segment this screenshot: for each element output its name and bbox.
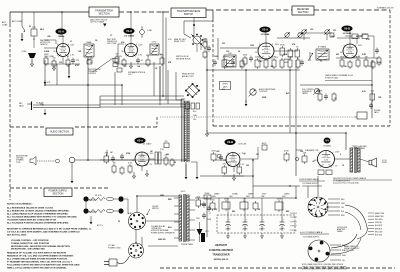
svg-text:IF TRANSMITTER HAS DRIVEN, THI: IF TRANSMITTER HAS DRIVEN, THIS COIL WIT… [7, 261, 73, 264]
svg-text:+ 5 V: + 5 V [231, 157, 234, 159]
svg-text:2: 2 [57, 55, 58, 57]
svg-text:SET AS FOLLOWS:: SET AS FOLLOWS: [7, 234, 27, 237]
svg-text:2: 2 [136, 165, 137, 167]
svg-text:6: 6 [340, 154, 341, 156]
svg-text:1/2 6EA8: 1/2 6EA8 [261, 33, 271, 36]
svg-text:470K: 470K [126, 152, 131, 155]
svg-text:READINGS OF 75 A AND 17-D WITH: READINGS OF 75 A AND 17-D WITH SWITCH ON… [7, 252, 67, 255]
svg-text:YEL: YEL [342, 260, 345, 262]
svg-text:POWER CORD: POWER CORD [108, 247, 121, 249]
svg-text:20MFD: 20MFD [284, 194, 290, 196]
svg-text:7: 7 [68, 55, 69, 57]
svg-text:C19: C19 [226, 51, 229, 53]
svg-text:LVL 2: LVL 2 [128, 74, 133, 76]
svg-text:YEL: YEL [193, 119, 196, 121]
svg-text:1 2 0: 1 2 0 [129, 50, 133, 52]
svg-text:C21: C21 [222, 43, 225, 45]
svg-text:NOTE: WHEN USED ON DC, USE WIR: NOTE: WHEN USED ON DC, USE WIRE PER LIST… [302, 264, 344, 266]
svg-text:CONTROL: CONTROL [88, 73, 96, 75]
svg-text:NOTES ON SCHEMATIC:: NOTES ON SCHEMATIC: [7, 203, 33, 206]
svg-text:.005: .005 [270, 66, 273, 68]
svg-text:C7: C7 [110, 35, 112, 37]
svg-text:1 2 0: 1 2 0 [140, 159, 144, 161]
svg-text:FINAL: FINAL [86, 41, 91, 44]
svg-text:AND AC CONT.: AND AC CONT. [182, 75, 194, 78]
svg-text:SECTION: SECTION [98, 12, 109, 15]
svg-text:100K: 100K [243, 54, 248, 56]
svg-text:VOLUME CONTROL - OFF POS: VOLUME CONTROL - OFF POSITION [11, 240, 49, 242]
svg-text:+ 5 V: + 5 V [129, 47, 132, 49]
svg-text:C31: C31 [333, 30, 336, 32]
svg-text:+ 5 V: + 5 V [264, 48, 267, 50]
svg-text:TONING CAPACITOR - MID POS: TONING CAPACITOR - MID POSITION [11, 242, 50, 245]
svg-text:150MA: 150MA [232, 193, 238, 196]
svg-text:4: 4 [239, 153, 240, 155]
svg-text:5-730: 5-730 [152, 42, 157, 44]
svg-text:4.7K: 4.7K [128, 162, 133, 164]
svg-text:SCHEMATIC 595-299: SCHEMATIC 595-299 [377, 7, 394, 10]
svg-text:47: 47 [209, 213, 211, 215]
svg-text:POSITION GND: POSITION GND [325, 77, 339, 79]
svg-text:12: 12 [342, 165, 344, 167]
svg-text:1 2 0: 1 2 0 [61, 50, 65, 52]
svg-text:4: 4 [332, 152, 333, 154]
svg-text:IF TRANS: IF TRANS [318, 46, 327, 49]
svg-text:.005: .005 [216, 151, 219, 153]
svg-text:ALL CAPACITANCE IN UF UNLESS O: ALL CAPACITANCE IN UF UNLESS OTHERWISE S… [7, 213, 69, 216]
svg-text:1/2 6AQ5: 1/2 6AQ5 [323, 145, 331, 148]
svg-text:9: 9 [125, 44, 126, 46]
svg-text:TO PIN 2: TO PIN 2 [290, 221, 297, 223]
svg-text:2.5MH: 2.5MH [44, 51, 50, 53]
svg-text:470: 470 [226, 161, 229, 164]
svg-text:20MFD: 20MFD [248, 194, 254, 196]
svg-text:11-PIN POWER CABLE: 11-PIN POWER CABLE [299, 178, 319, 181]
svg-text:1/2 6CX8: 1/2 6CX8 [238, 144, 246, 146]
svg-text:TO SPKR TERM: TO SPKR TERM [352, 148, 365, 150]
svg-text:1000: 1000 [250, 45, 254, 47]
svg-text:10W: 10W [277, 198, 281, 200]
svg-text:LENGTH: LENGTH [40, 44, 48, 46]
svg-text:T1: T1 [320, 61, 322, 63]
svg-text:100K: 100K [283, 54, 288, 56]
svg-text:.05: .05 [334, 98, 336, 100]
svg-text:L3: L3 [160, 54, 162, 56]
svg-text:ALL VOLTAGES POSITIVE UNLESS O: ALL VOLTAGES POSITIVE UNLESS OTHERWISE S… [7, 222, 69, 225]
svg-text:5U4GB: 5U4GB [200, 203, 207, 206]
svg-text:12AB5: 12AB5 [58, 35, 65, 38]
svg-text:SPKR: SPKR [223, 84, 229, 86]
svg-text:25W: 25W [261, 196, 265, 198]
svg-text:RELAY CONT.: RELAY CONT. [174, 40, 185, 43]
svg-text:FOLLOWING IS WITH THE SWITCH I: FOLLOWING IS WITH THE SWITCH IN BATTERY … [7, 263, 80, 266]
svg-text:GRID: GRID [284, 62, 289, 64]
svg-text:STANDARD COIL: STANDARD COIL [305, 149, 319, 152]
svg-text:#47 PILOT LAMP: #47 PILOT LAMP [90, 21, 105, 24]
svg-text:220: 220 [166, 154, 169, 156]
svg-text:20MFD: 20MFD [242, 229, 248, 231]
svg-text:1/2 12AB5: 1/2 12AB5 [124, 34, 135, 37]
svg-text:2: 2 [228, 165, 229, 167]
svg-text:CONTROL: CONTROL [259, 91, 268, 93]
svg-text:10 METRE AMATEUR: 10 METRE AMATEUR [209, 249, 233, 252]
svg-text:1/2 6EA8: 1/2 6EA8 [343, 32, 353, 35]
svg-text:120: 120 [246, 165, 249, 167]
svg-text:RECEIVING HUM - ADJUSTE: RECEIVING HUM - ADJUSTED FOR NORMAL RECE… [11, 245, 70, 248]
svg-text:GRN-YEL: GRN-YEL [375, 222, 382, 224]
svg-text:470K: 470K [316, 90, 321, 93]
svg-text:V1-A: V1-A [58, 30, 64, 34]
svg-text:OSC TUNE: OSC TUNE [107, 43, 117, 45]
svg-text:C30: C30 [310, 29, 313, 31]
svg-text:7: 7 [355, 57, 356, 59]
svg-text:20MFD: 20MFD [279, 229, 285, 231]
svg-text:TO POWER SUPPLY: TO POWER SUPPLY [302, 183, 319, 185]
svg-text:9: 9 [344, 45, 345, 47]
svg-text:9: 9 [319, 152, 320, 154]
svg-text:POWER SUPPLY OPERATION: POWER SUPPLY OPERATION [151, 231, 175, 234]
svg-text:20MFD: 20MFD [225, 229, 231, 231]
svg-text:470K: 470K [284, 150, 289, 152]
svg-text:WIRE L-4 FOLLOWING IS WITH THE: WIRE L-4 FOLLOWING IS WITH THE SWITCH IN… [7, 266, 67, 269]
svg-text:2: 2 [125, 55, 126, 57]
svg-text:ALL VOLTAGES MEASURED WITH RES: ALL VOLTAGES MEASURED WITH RESPECT TO CH… [7, 216, 78, 219]
svg-text:COAX: COAX [2, 23, 8, 26]
svg-text:GRN-YEL: GRN-YEL [158, 239, 167, 241]
svg-text:40MFD: 40MFD [259, 229, 265, 231]
svg-text:R42: R42 [286, 210, 289, 213]
svg-text:250K: 250K [262, 97, 267, 99]
svg-text:7: 7 [239, 165, 240, 167]
svg-text:R40: R40 [232, 210, 235, 213]
svg-text:4: 4 [147, 153, 148, 155]
svg-text:3.2: 3.2 [222, 89, 224, 91]
svg-text:TO POWER SUPPLY: TO POWER SUPPLY [303, 237, 320, 239]
svg-text:AUDIO SECTION: AUDIO SECTION [50, 130, 69, 133]
svg-text:9: 9 [136, 153, 137, 155]
svg-text:54-79: 54-79 [181, 191, 186, 193]
svg-text:9: 9 [57, 44, 58, 46]
svg-text:4: 4 [355, 45, 356, 47]
svg-text:1 2 0: 1 2 0 [324, 160, 328, 162]
svg-text:JACK: JACK [19, 105, 25, 108]
svg-text:+ 5 V: + 5 V [324, 156, 327, 158]
svg-text:ALL RESISTANCE VALUES IN OHMS.: ALL RESISTANCE VALUES IN OHMS. K=1000. [7, 207, 54, 210]
svg-text:C40: C40 [214, 208, 217, 211]
svg-text:SWITCH: SWITCH [152, 208, 159, 210]
svg-text:C4: C4 [95, 39, 97, 42]
svg-text:.005: .005 [146, 55, 149, 57]
svg-text:HEATHKIT: HEATHKIT [215, 244, 227, 247]
svg-text:BLU-WHT: BLU-WHT [375, 225, 382, 227]
svg-text:7: 7 [272, 57, 273, 59]
svg-text:4+DC POWER CABLE: 4+DC POWER CABLE [300, 231, 323, 234]
svg-text:TO PIN 4: TO PIN 4 [290, 213, 297, 215]
svg-text:1W: 1W [256, 154, 259, 156]
svg-text:100: 100 [59, 62, 62, 64]
svg-text:X-TAL: X-TAL [22, 50, 27, 53]
svg-text:270K: 270K [280, 44, 285, 46]
svg-text:ALL RESISTORS 1/2 WATT UNLESS: ALL RESISTORS 1/2 WATT UNLESS OTHERWISE … [7, 210, 70, 213]
svg-text:.02: .02 [312, 161, 314, 163]
svg-text:25W: 25W [224, 198, 228, 200]
svg-text:FIL 6.3V: FIL 6.3V [95, 195, 103, 197]
svg-text:+ 5 V: + 5 V [61, 47, 64, 49]
svg-text:6.8PF: 6.8PF [258, 61, 263, 63]
svg-text:SWITCH: SWITCH [184, 13, 194, 16]
svg-text:MICROPHONE - DISCONN: MICROPHONE - DISCONNECTED [11, 249, 45, 251]
svg-text:455: 455 [336, 53, 339, 56]
svg-text:2: 2 [259, 57, 260, 59]
svg-text:TRANSCEIVER: TRANSCEIVER [212, 253, 229, 256]
svg-text:(Connector Pins in Viewed-End): (Connector Pins in Viewed-End) [333, 182, 359, 185]
svg-text:7: 7 [244, 154, 245, 156]
svg-text:L2: L2 [90, 62, 92, 64]
svg-text:BRN-BLK: BRN-BLK [375, 228, 383, 230]
svg-text:NE-2: NE-2 [40, 29, 44, 31]
svg-text:1500: 1500 [229, 196, 233, 198]
svg-text:2: 2 [344, 57, 345, 59]
svg-text:100: 100 [90, 58, 93, 60]
svg-text:YEL: YEL [341, 207, 344, 209]
svg-text:4: 4 [68, 44, 69, 46]
svg-text:V2-A: V2-A [262, 28, 268, 32]
svg-text:BLK GND: BLK GND [375, 235, 383, 237]
svg-text:CABLE: CABLE [337, 230, 343, 233]
svg-text:MET PLT: MET PLT [356, 36, 364, 38]
svg-text:SECTION: SECTION [53, 193, 64, 196]
svg-text:READINGS OF 27A, COL AND C62 A: READINGS OF 27A, COL AND C62 APPROXIMATE… [7, 254, 74, 257]
svg-text:1000: 1000 [214, 56, 218, 58]
svg-text:8-50: 8-50 [121, 42, 125, 44]
svg-text:TAPER: TAPER [302, 92, 308, 95]
svg-text:S1: S1 [29, 26, 31, 28]
svg-text:.02: .02 [110, 152, 112, 154]
svg-text:TO PIN 5: TO PIN 5 [290, 230, 297, 232]
svg-text:+ 5 V: + 5 V [348, 48, 351, 50]
svg-text:7: 7 [136, 55, 137, 57]
svg-text:1 2 0: 1 2 0 [231, 160, 235, 162]
svg-text:47PF: 47PF [75, 64, 79, 67]
svg-text:L6: L6 [238, 51, 240, 53]
svg-text:V4: V4 [325, 139, 329, 143]
svg-text:RECEIVE POSIT.: RECEIVE POSIT. [176, 58, 191, 60]
svg-text:TO PIN 9: TO PIN 9 [290, 226, 297, 228]
svg-text:X-TAL: X-TAL [147, 29, 152, 32]
svg-text:.01: .01 [124, 66, 126, 68]
svg-text:ALL OTHERS BELOW WERE SHOWN IN: ALL OTHERS BELOW WERE SHOWN IN EITHER PO… [7, 257, 68, 260]
svg-text:L1: L1 [70, 41, 72, 43]
svg-text:6BQ5: 6BQ5 [262, 143, 267, 145]
svg-text:SECTION: SECTION [298, 11, 309, 14]
svg-text:.01: .01 [368, 66, 370, 68]
svg-text:.001: .001 [78, 51, 81, 53]
svg-text:7: 7 [147, 165, 148, 167]
svg-text:JACK: JACK [374, 111, 379, 114]
svg-text:V3-A: V3-A [137, 139, 143, 143]
svg-text:2.2M: 2.2M [362, 54, 366, 56]
svg-text:1M: 1M [113, 162, 116, 164]
svg-text:ANT CONN: ANT CONN [12, 20, 22, 23]
svg-text:1/2 12AX7: 1/2 12AX7 [143, 143, 152, 146]
svg-text:1000: 1000 [203, 41, 207, 43]
svg-text:2: 2 [319, 166, 320, 168]
svg-text:TO PIN 7: TO PIN 7 [290, 217, 297, 219]
svg-text:SPKR: SPKR [382, 162, 388, 164]
svg-text:.005: .005 [47, 36, 50, 38]
svg-text:4: 4 [136, 44, 137, 46]
svg-text:6 OR 12 VDC: 6 OR 12 VDC [344, 250, 355, 252]
svg-text:1 2 0: 1 2 0 [264, 52, 268, 54]
svg-text:V3-B: V3-B [227, 140, 233, 144]
svg-text:SEE NOTE 4 BELOW FOR THE POWER: SEE NOTE 4 BELOW FOR THE POWER PLUG WIRE… [302, 269, 348, 271]
svg-text:7: 7 [332, 166, 333, 168]
svg-text:S2: S2 [118, 221, 120, 223]
svg-text:4: 4 [272, 44, 273, 46]
svg-text:VOLTAGES TAKEN WITH AN 11 MEGO: VOLTAGES TAKEN WITH AN 11 MEGOHM VTVM. [7, 219, 57, 222]
svg-text:9: 9 [259, 44, 260, 46]
svg-text:RED 230V: RED 230V [375, 231, 383, 233]
svg-text:1 2 0: 1 2 0 [348, 51, 352, 53]
svg-text:RECEIVER TO OPERATE BETWEEN 26: RECEIVER TO OPERATE BETWEEN 26.9 AND 27.… [7, 228, 92, 231]
svg-text:25: 25 [174, 162, 176, 164]
svg-text:2.2M: 2.2M [288, 56, 293, 58]
svg-text:40MFD: 40MFD [214, 194, 220, 196]
svg-text:9: 9 [228, 153, 229, 155]
svg-text:MODEL HW-19: MODEL HW-19 [214, 259, 229, 261]
svg-text:RED-GRN: RED-GRN [375, 219, 383, 221]
svg-text:.01: .01 [240, 66, 242, 68]
svg-text:+ 5 V: + 5 V [140, 156, 143, 158]
svg-text:1/2 VOLT AC USED WITH DUMMY LO: 1/2 VOLT AC USED WITH DUMMY LOAD IN SERI… [7, 231, 80, 234]
svg-text:V2-B: V2-B [344, 27, 350, 31]
